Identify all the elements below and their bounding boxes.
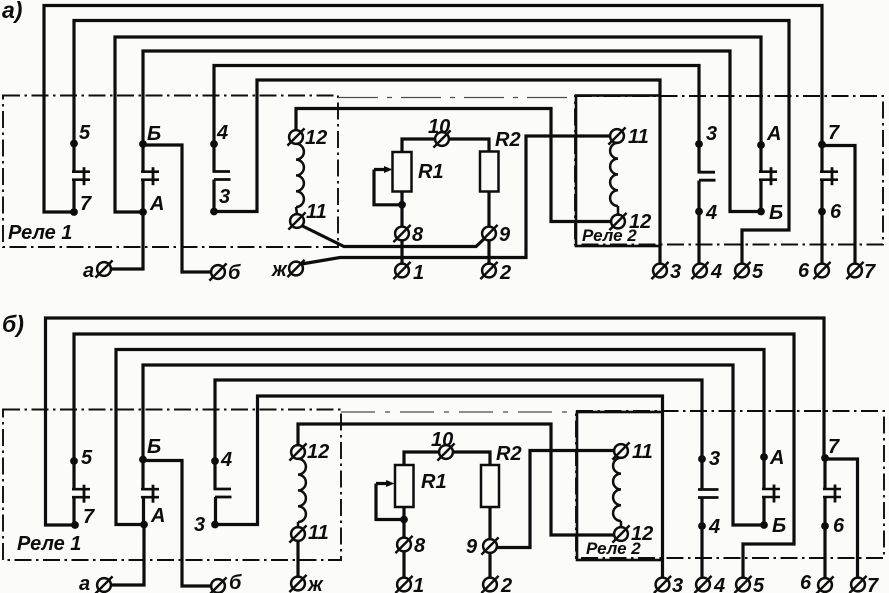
terminal 8 b bbox=[395, 535, 426, 557]
R1b lead to terminal 8 bbox=[402, 507, 405, 538]
svg-text:ж: ж bbox=[271, 259, 288, 281]
terminal 5 (bottom) bbox=[733, 261, 764, 283]
terminal 1 b bbox=[395, 575, 424, 593]
terminal 8 bbox=[393, 224, 424, 246]
relay 2 box bbox=[576, 96, 660, 247]
terminal а (b) bbox=[79, 573, 113, 593]
label Реле 2 b bbox=[586, 539, 641, 558]
terminal 1 bbox=[393, 262, 424, 284]
svg-text:Б: Б bbox=[769, 202, 783, 224]
svg-text:7: 7 bbox=[867, 575, 879, 593]
R1 wiper arm bbox=[374, 166, 406, 209]
terminal 5 b (bottom) bbox=[734, 575, 765, 593]
faint dash-dot connector (b, between boxes) bbox=[341, 411, 576, 413]
svg-text:А: А bbox=[766, 123, 781, 145]
svg-text:6: 6 bbox=[798, 260, 810, 282]
svg-text:11: 11 bbox=[628, 126, 649, 148]
lead coil11b to terminal ж bbox=[296, 541, 299, 578]
R1 top lead to terminal 10 bbox=[402, 139, 436, 152]
svg-text:Б: Б bbox=[147, 436, 161, 458]
lead 6 to terminal 6 b bbox=[823, 526, 826, 579]
diagram label a) bbox=[2, 0, 22, 23]
wire Б to terminal б bbox=[143, 145, 212, 272]
svg-text:Б: Б bbox=[147, 123, 161, 145]
relay 1 coil terminal 11 b bbox=[289, 522, 328, 544]
svg-text:Реле 1: Реле 1 bbox=[17, 533, 81, 555]
wire coil12-left to coil12-right bbox=[296, 109, 612, 222]
svg-text:9: 9 bbox=[499, 224, 511, 246]
wire W5b bbox=[215, 380, 702, 461]
terminal 10 b bbox=[431, 429, 455, 461]
terminal ж bbox=[271, 259, 305, 281]
terminal 7 b (bottom) bbox=[849, 575, 879, 593]
svg-text:Реле 1: Реле 1 bbox=[8, 222, 72, 244]
svg-text:8: 8 bbox=[412, 224, 424, 246]
svg-text:12: 12 bbox=[631, 523, 653, 545]
wire W3 (relay1 contact A to relay2 contact A) bbox=[115, 37, 761, 212]
lead 4 to terminal 4 b bbox=[700, 526, 703, 578]
svg-text:R2: R2 bbox=[496, 443, 522, 465]
wire coil12b to coil12b-right bbox=[298, 424, 615, 535]
svg-text:б): б) bbox=[2, 311, 24, 337]
wire А to terminal а bbox=[111, 212, 144, 269]
label Реле 1 bbox=[8, 222, 72, 244]
svg-text:5: 5 bbox=[81, 447, 93, 469]
svg-text:6: 6 bbox=[830, 201, 842, 223]
wire ж to relay2 coil 11 bbox=[302, 136, 611, 264]
svg-text:9: 9 bbox=[466, 536, 478, 558]
resistor R1 bbox=[393, 152, 444, 192]
terminal 6 (bottom) bbox=[798, 260, 831, 282]
relay 2 coil terminal 11 b bbox=[612, 441, 652, 463]
relay 1 coil terminal 12 bbox=[287, 127, 327, 149]
wire terminal 10 to R2 bbox=[449, 139, 490, 152]
wire А to terminal а (b) bbox=[111, 525, 145, 586]
wire contact7b to terminal 7 bbox=[825, 459, 858, 578]
contact group Б-А (relay 1) bbox=[139, 123, 164, 216]
relay 2 box b bbox=[577, 412, 663, 560]
label Реле 2 (a) bbox=[582, 226, 637, 245]
terminal 4 bbox=[691, 261, 722, 283]
svg-text:7: 7 bbox=[828, 436, 840, 458]
terminal 9 bbox=[480, 224, 511, 246]
lead 9 to 2 bbox=[487, 241, 490, 265]
relay 1 coil terminal 11 bbox=[288, 201, 326, 230]
svg-text:5: 5 bbox=[752, 261, 764, 283]
wire W2 (relay1 contact 5 to terminal 5) bbox=[74, 21, 789, 264]
R1b top lead to terminal 10 bbox=[404, 452, 440, 465]
svg-text:1: 1 bbox=[413, 575, 424, 593]
R2b lead to terminal 9 bbox=[488, 507, 491, 540]
wire W6 (relay1 contact 3 to terminal 3) bbox=[214, 80, 660, 264]
terminal а bbox=[83, 260, 113, 282]
svg-text:R2: R2 bbox=[495, 129, 521, 151]
contact group 7-6 (right) bbox=[818, 122, 842, 223]
svg-text:а: а bbox=[79, 573, 90, 593]
svg-text:Б: Б bbox=[772, 515, 786, 537]
svg-text:2: 2 bbox=[499, 262, 511, 284]
svg-text:3: 3 bbox=[709, 448, 720, 470]
svg-text:7: 7 bbox=[828, 122, 840, 144]
terminal 2 b bbox=[481, 575, 512, 593]
svg-text:3: 3 bbox=[672, 575, 683, 593]
svg-text:7: 7 bbox=[80, 193, 92, 215]
terminal 3 (bottom) bbox=[651, 261, 681, 283]
relay 2 coil terminal 12 b bbox=[612, 523, 653, 545]
svg-text:а): а) bbox=[2, 0, 22, 23]
wire W4b bbox=[143, 365, 764, 525]
svg-text:R1: R1 bbox=[421, 471, 447, 493]
relay 1 coil terminal 12 b bbox=[289, 441, 329, 463]
relay 1 coil winding bbox=[296, 144, 304, 215]
svg-text:12: 12 bbox=[305, 127, 327, 149]
svg-text:R1: R1 bbox=[418, 161, 444, 183]
wire coil11-left to terminal 9 bbox=[302, 226, 485, 247]
svg-text:3: 3 bbox=[194, 514, 205, 536]
svg-text:4: 4 bbox=[216, 122, 228, 144]
contact group 5-7 b bbox=[70, 447, 95, 529]
svg-text:4: 4 bbox=[713, 575, 725, 593]
relay 2 coil winding bbox=[610, 143, 618, 215]
wire W2b bbox=[74, 334, 794, 578]
svg-text:11: 11 bbox=[306, 201, 327, 223]
svg-text:4: 4 bbox=[220, 449, 232, 471]
svg-text:7: 7 bbox=[83, 506, 95, 528]
svg-text:10: 10 bbox=[428, 116, 450, 138]
svg-text:4: 4 bbox=[705, 202, 717, 224]
lead 4 to terminal 4 bbox=[697, 212, 700, 265]
terminal б bbox=[209, 262, 241, 284]
svg-text:4: 4 bbox=[708, 516, 720, 538]
lead 8 to 1 b bbox=[402, 552, 405, 579]
right enclosure (dash-dot box) bbox=[575, 96, 883, 245]
svg-text:А: А bbox=[769, 447, 784, 469]
svg-text:1: 1 bbox=[413, 262, 424, 284]
relay 2 coil terminal 12 bbox=[609, 211, 651, 233]
wire W1b bbox=[46, 318, 825, 525]
relay 2 coil winding b bbox=[613, 458, 621, 528]
terminal 2 bbox=[480, 262, 511, 284]
label Реле 1 b bbox=[17, 533, 81, 555]
contact group Б-А b bbox=[139, 436, 165, 528]
svg-text:8: 8 bbox=[414, 535, 426, 557]
svg-text:3: 3 bbox=[219, 186, 230, 208]
wire W4 (relay1 contact B to relay2 contact B) bbox=[143, 51, 762, 212]
terminal ж (b) bbox=[289, 574, 324, 593]
relay 1 enclosure (dash-dot box) bbox=[3, 96, 338, 248]
lead 9 to 2 b bbox=[488, 553, 491, 579]
wire Б to terminal б (b) bbox=[143, 461, 212, 587]
svg-text:6: 6 bbox=[833, 515, 845, 537]
terminal 6 b (bottom) bbox=[800, 572, 834, 593]
terminal 9 b bbox=[466, 536, 499, 558]
wire terminal 9b to relay2 coil 11 bbox=[497, 451, 615, 548]
svg-text:12: 12 bbox=[629, 211, 651, 233]
terminal 10 bbox=[428, 116, 451, 148]
right enclosure b (dash-dot box) bbox=[576, 411, 884, 558]
svg-text:10: 10 bbox=[431, 429, 453, 451]
resistor R2 b bbox=[481, 443, 522, 507]
contact group 3-4 (right) bbox=[695, 123, 717, 224]
svg-text:А: А bbox=[150, 505, 165, 527]
diagram label б) bbox=[2, 311, 24, 337]
svg-text:5: 5 bbox=[79, 122, 91, 144]
wire W5 (relay1 contact 4 to relay2 contact 3) bbox=[214, 66, 699, 145]
svg-text:б: б bbox=[228, 262, 241, 284]
contact group А-Б (right) bbox=[757, 123, 783, 224]
lead 6 to terminal 6 bbox=[820, 212, 823, 265]
contact group А-Б b (right) bbox=[760, 447, 786, 537]
contact group 4-3 b bbox=[194, 449, 232, 536]
svg-text:12: 12 bbox=[307, 441, 329, 463]
svg-text:2: 2 bbox=[500, 575, 512, 593]
contact group 3-4 b (right) bbox=[698, 448, 720, 538]
relay 2 coil terminal 11 bbox=[608, 126, 648, 148]
svg-text:3: 3 bbox=[706, 123, 717, 145]
contact group 7-6 b (right) bbox=[821, 436, 845, 537]
wire W6b bbox=[215, 396, 663, 578]
wire W3b bbox=[116, 350, 764, 525]
svg-text:4: 4 bbox=[710, 261, 722, 283]
R1b wiper arm bbox=[376, 480, 408, 523]
terminal 3 b (bottom) bbox=[654, 575, 683, 593]
R2 lead to terminal 9 bbox=[487, 192, 490, 228]
svg-text:ж: ж bbox=[307, 574, 324, 593]
svg-text:а: а bbox=[83, 260, 94, 282]
contact group 4-3 (relay 1) bbox=[210, 122, 230, 215]
svg-text:11: 11 bbox=[308, 522, 329, 544]
svg-text:б: б bbox=[229, 572, 242, 593]
terminal 7 (bottom) bbox=[846, 261, 876, 283]
faint dash-dot connector (a, between boxes) bbox=[338, 97, 575, 99]
terminal 4 b bbox=[694, 575, 725, 593]
svg-text:11: 11 bbox=[632, 441, 653, 463]
lead 8 to 1 bbox=[400, 240, 403, 264]
R1 lead to terminal 8 bbox=[400, 192, 403, 228]
resistor R1 b bbox=[395, 465, 447, 507]
svg-text:6: 6 bbox=[800, 572, 812, 593]
contact group 5-7 (relay 1) bbox=[70, 122, 92, 216]
wire contact7 to terminal 7 bbox=[822, 146, 855, 265]
svg-text:5: 5 bbox=[753, 575, 765, 593]
svg-text:А: А bbox=[149, 193, 164, 215]
svg-text:3: 3 bbox=[670, 261, 681, 283]
wire terminal 10b to R2b bbox=[453, 452, 491, 465]
terminal б (b) bbox=[209, 572, 242, 593]
relay 1 enclosure b (dash-dot box) bbox=[3, 410, 341, 561]
relay 1 coil winding b bbox=[298, 459, 306, 528]
resistor R2 bbox=[480, 129, 521, 192]
wire W1 (relay1 contact 7 to relay2 contact 7) bbox=[44, 6, 822, 213]
svg-text:7: 7 bbox=[864, 261, 876, 283]
